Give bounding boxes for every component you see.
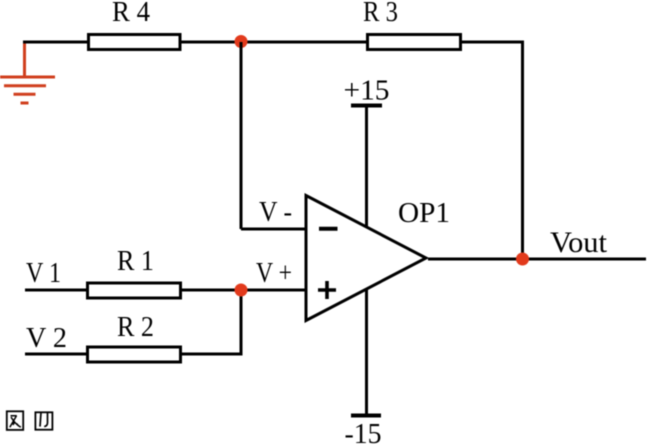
wire V1 to R1 — [25, 289, 87, 292]
label 图四 (hand-drawn glyphs) — [7, 411, 53, 430]
junction output node — [516, 253, 529, 266]
glyph 图 — [7, 411, 23, 430]
ground — [0, 41, 55, 104]
wire R3 to feedback corner — [460, 42, 523, 259]
inverting input marker — [319, 227, 338, 231]
power -15 supply wire — [365, 289, 368, 416]
wire output — [428, 258, 646, 261]
wire V2 to R2 — [25, 353, 87, 356]
wire R4 to node A — [180, 41, 241, 44]
svg-text:+15: +15 — [344, 76, 390, 107]
wire node A to R3 — [241, 41, 367, 44]
svg-text:V 2: V 2 — [26, 323, 67, 354]
resistor R4 — [89, 35, 181, 50]
svg-text:V 1: V 1 — [26, 258, 61, 289]
non-inverting input marker — [318, 281, 336, 299]
svg-text:-15: -15 — [345, 419, 382, 446]
svg-text:V -: V - — [259, 197, 292, 228]
wire ground to R4 — [23, 41, 88, 44]
wire R1 to node B and op-amp non-inverting input — [181, 289, 306, 292]
power -15 bar — [351, 414, 381, 418]
wire V- into op-amp — [241, 228, 306, 231]
resistor R2 — [88, 347, 181, 362]
wire node A down to inverting input — [240, 42, 243, 229]
svg-text:V +: V + — [256, 258, 292, 289]
svg-text:R 2: R 2 — [117, 312, 154, 343]
power +15 bar — [351, 104, 382, 108]
svg-text:R 1: R 1 — [117, 246, 154, 277]
resistor R3 — [368, 35, 461, 50]
power +15 supply wire — [365, 106, 368, 228]
svg-text:OP1: OP1 — [398, 197, 450, 229]
junction node A — [235, 35, 248, 48]
junction node B — [235, 284, 248, 297]
wire R2 riser to node B — [181, 290, 241, 354]
resistor R1 — [88, 283, 181, 298]
svg-text:Vout: Vout — [550, 227, 608, 259]
op-amp OP1 — [306, 196, 426, 321]
glyph 四 — [35, 412, 52, 429]
svg-text:R 3: R 3 — [363, 0, 398, 28]
svg-text:R 4: R 4 — [112, 0, 150, 28]
